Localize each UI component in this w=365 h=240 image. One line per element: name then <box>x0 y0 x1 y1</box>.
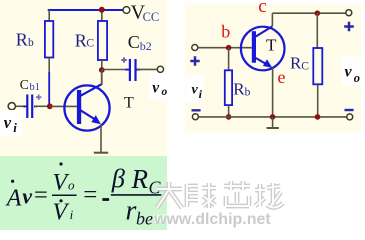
terminal VCC circle <box>123 7 130 14</box>
node: Rb bottom dot <box>226 114 232 120</box>
svg-text:T: T <box>124 95 134 112</box>
node: RC top dot <box>315 10 321 16</box>
svg-text:b1: b1 <box>30 82 41 93</box>
svg-text:o: o <box>162 86 168 98</box>
terminal input bottom circle <box>192 114 198 120</box>
terminal vo circle <box>157 66 163 72</box>
svg-text:e: e <box>278 67 286 87</box>
node: top rail junction dot <box>99 7 105 13</box>
svg-text:R: R <box>290 53 302 72</box>
svg-text:o: o <box>354 71 360 85</box>
transistor T2 base bar <box>252 31 256 63</box>
svg-text:v: v <box>22 184 32 209</box>
svg-text:b2: b2 <box>140 39 152 53</box>
terminal out top circle <box>346 10 352 16</box>
watermark char 3 <box>224 181 250 206</box>
wire: emitter vertical to ground <box>100 124 102 152</box>
wire: RC bottom to collector node <box>101 60 103 85</box>
node: base junction dot <box>47 103 53 109</box>
wire: Rb bottom lead <box>228 105 230 117</box>
plus sign right (blue) <box>344 22 354 32</box>
wire: input to base <box>198 47 252 49</box>
wire: bottom rail <box>198 116 349 118</box>
formula minus <box>102 198 109 201</box>
formula dot over Vi <box>59 199 62 202</box>
minus sign right (blue) <box>345 109 354 111</box>
wire: Cb1 to base node <box>35 105 50 107</box>
svg-text:v: v <box>152 80 160 97</box>
svg-text:=: = <box>34 181 48 208</box>
svg-text:i: i <box>13 120 17 135</box>
node: b junction dot <box>226 45 232 51</box>
wire: vi terminal to Cb1 <box>15 105 26 107</box>
capacitor Cb2 plates <box>125 69 129 71</box>
ground (left) <box>94 152 108 154</box>
wire: collector node to Cb2 <box>102 69 127 71</box>
svg-text:v: v <box>345 64 353 81</box>
transistor T2 emitter stroke <box>256 58 267 65</box>
watermark char 1 <box>157 182 182 208</box>
wire: RC bottom lead (right) <box>317 84 319 117</box>
svg-text:A: A <box>5 185 22 211</box>
formula fraction bar 2 <box>111 194 162 196</box>
formula green panel <box>0 156 167 230</box>
node: emitter rail dot <box>270 114 276 120</box>
transistor T1 base bar <box>77 90 81 124</box>
transistor T1 collector stroke <box>81 84 102 95</box>
plus sign at Cb1 <box>36 95 41 100</box>
svg-text:C: C <box>128 32 140 52</box>
white box behind vo <box>149 74 174 100</box>
formula fraction bar 1 <box>52 194 77 196</box>
ground (right) bar <box>267 127 279 129</box>
wire: Rb top lead <box>228 48 230 71</box>
svg-text:b: b <box>245 87 251 99</box>
wire: RC top lead <box>101 9 103 21</box>
wire: corner down to Rb top <box>48 9 50 21</box>
capacitor Cb1 plates <box>23 105 27 107</box>
resistor RC <box>98 21 107 60</box>
node: RC bottom dot <box>315 114 321 120</box>
formula dot over A <box>11 180 14 183</box>
wire: Cb2 to output terminal <box>137 68 157 70</box>
wire: top rail (blue) <box>48 9 124 11</box>
white box behind vo (right) <box>341 57 365 86</box>
svg-text:o: o <box>68 178 75 193</box>
plus sign left (blue) <box>190 56 199 65</box>
svg-text:c: c <box>258 0 266 17</box>
svg-text:C: C <box>86 37 94 49</box>
svg-text:R: R <box>131 164 149 194</box>
svg-text:be: be <box>136 209 153 229</box>
svg-text:V: V <box>53 170 70 196</box>
resistor RC (right) <box>313 48 322 84</box>
left circuit cream panel <box>0 0 167 156</box>
right circuit cream panel <box>185 4 361 132</box>
svg-text:T: T <box>266 36 277 55</box>
wire: Rb bottom lead (dark then blue) <box>48 58 50 74</box>
minus sign left (blue) <box>192 109 201 111</box>
svg-text:CC: CC <box>143 10 160 24</box>
svg-text:b: b <box>28 37 34 49</box>
wire: collector up to rail <box>271 13 273 26</box>
formula dot over Vo <box>59 162 62 165</box>
svg-text:R: R <box>16 30 28 50</box>
svg-text:b: b <box>221 22 230 42</box>
wire: collector vertical <box>101 70 103 85</box>
svg-text:v: v <box>4 113 12 132</box>
svg-text:=: = <box>83 181 97 208</box>
resistor Rb <box>45 21 53 58</box>
svg-text:r: r <box>126 195 137 226</box>
transistor T1 circle <box>64 85 109 130</box>
transistor T1 emitter stroke <box>81 110 97 120</box>
wire: RC top lead (right) <box>316 13 318 48</box>
watermark char highlights <box>157 182 182 208</box>
svg-text:C: C <box>20 77 29 92</box>
terminal input top circle <box>192 45 198 51</box>
svg-text:i: i <box>70 207 74 222</box>
terminal out bottom circle <box>347 114 353 120</box>
transistor T1 emitter arrow <box>91 115 101 124</box>
watermark char 2 <box>187 183 216 208</box>
svg-text:www.dlchip.net: www.dlchip.net <box>153 211 271 228</box>
ground (right) stem <box>272 117 274 128</box>
node: collector junction dot <box>99 67 105 73</box>
wire: emitter vertical (right) <box>272 68 274 117</box>
wire: base node to transistor base <box>50 105 77 107</box>
transistor T2 circle <box>241 27 285 71</box>
svg-text:V: V <box>53 199 70 225</box>
wire: top rail (right) <box>272 12 345 14</box>
svg-text:β: β <box>111 163 126 193</box>
svg-text:R: R <box>233 80 245 99</box>
resistor Rb (right) <box>225 70 232 105</box>
svg-text:C: C <box>301 61 309 73</box>
svg-text:R: R <box>75 30 87 50</box>
transistor T2 emitter arrow <box>263 59 272 68</box>
white box behind vi <box>0 110 23 136</box>
svg-text:v: v <box>192 82 199 97</box>
plus sign at Cb2 <box>121 57 127 63</box>
transistor T2 collector stroke <box>256 26 272 36</box>
watermark char 4 <box>255 183 283 207</box>
terminal vi circle <box>8 103 15 110</box>
white box behind vi (right) <box>186 75 204 102</box>
